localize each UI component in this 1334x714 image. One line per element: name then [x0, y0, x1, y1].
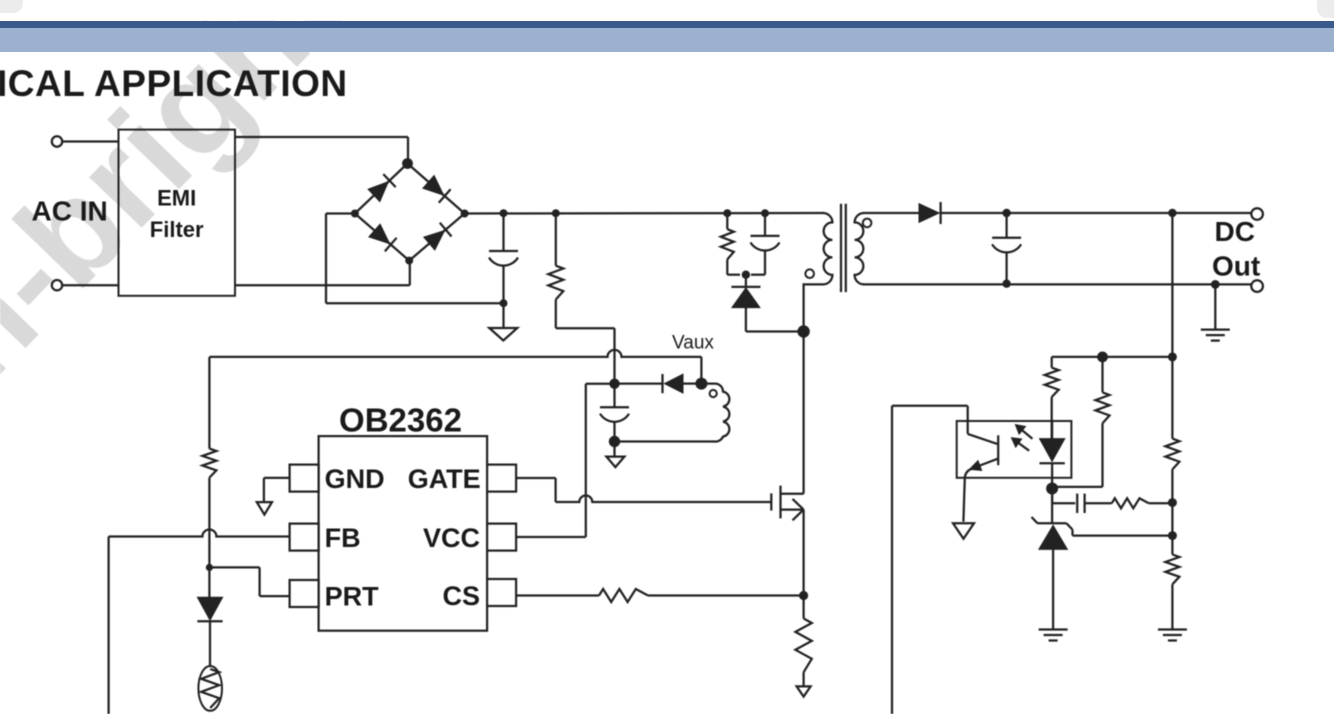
- optocoupler U2 phototransistor: [963, 406, 998, 522]
- node clamp: [742, 271, 750, 279]
- ground (output): [1201, 284, 1230, 340]
- transformer T1 core: [841, 204, 846, 292]
- wire: [326, 214, 504, 304]
- label DC: [1215, 216, 1255, 247]
- wire: [1171, 469, 1173, 554]
- pin label VCC: [423, 523, 480, 553]
- label AC IN: [32, 196, 108, 227]
- svg-text:CS: CS: [442, 581, 480, 611]
- wire GATE: [516, 478, 772, 502]
- pin label PRT: [325, 582, 380, 612]
- ground (zener): [1039, 630, 1068, 641]
- pin PRT: [290, 580, 319, 607]
- wire FB to opto: [892, 406, 968, 714]
- wire: [700, 357, 702, 378]
- ground (bulk): [489, 303, 517, 340]
- node: [723, 209, 731, 217]
- node bridge bottom: [405, 257, 413, 265]
- transformer T1 primary winding: [804, 213, 833, 332]
- svg-text:FB: FB: [325, 523, 361, 553]
- IC U1 OB2362 body: [319, 402, 488, 631]
- wire: [1171, 584, 1173, 629]
- wire CS: [516, 594, 599, 596]
- diode D1 (bridge): [368, 174, 396, 202]
- node bridge right: [461, 210, 469, 218]
- wire: [62, 140, 118, 142]
- node DC Out terminal +: [1251, 208, 1263, 220]
- svg-text:VCC: VCC: [423, 523, 480, 553]
- wire feedback rail: [1052, 356, 1173, 358]
- wire: [208, 357, 210, 449]
- header navy rule: [0, 21, 1334, 28]
- EMI filter block U3: [119, 130, 236, 296]
- label Out: [1212, 251, 1260, 282]
- node bridge top: [402, 158, 413, 169]
- wire FB (with hop): [109, 530, 290, 714]
- pin GND: [290, 465, 319, 492]
- node LED cathode: [1046, 483, 1058, 495]
- wire: [1171, 213, 1173, 439]
- svg-text:Filter: Filter: [150, 217, 204, 242]
- diode D5 (clamp): [731, 275, 800, 332]
- diode D8: [197, 567, 222, 666]
- ground (VCC cap): [606, 442, 624, 468]
- node source/CS: [799, 591, 808, 600]
- node: [552, 209, 560, 217]
- zener ZD1: [1032, 489, 1073, 630]
- node AC input terminal top: [52, 136, 62, 146]
- UI tab top-right: [1317, 0, 1334, 18]
- diode D3 (bridge): [369, 224, 397, 251]
- thermistor RT1: [198, 666, 222, 711]
- pin label GND: [325, 464, 385, 494]
- node: [1168, 209, 1176, 217]
- pin label FB: [325, 523, 361, 553]
- resistor R6 (divider lower): [1165, 555, 1179, 585]
- node: [500, 209, 508, 217]
- wire: [235, 261, 410, 286]
- node DC- ground tap: [1211, 280, 1220, 289]
- node: [1002, 209, 1010, 217]
- wire bridge edge: [408, 164, 465, 214]
- transistor Q1 (MOSFET): [771, 486, 803, 596]
- resistor R3 (opto series): [1045, 357, 1059, 439]
- node: [609, 436, 620, 447]
- header blue band: [0, 28, 1334, 52]
- capacitor C5 (comp): [1052, 494, 1112, 513]
- wire bridge edge: [409, 214, 464, 261]
- pin VCC: [487, 524, 516, 551]
- node: [1168, 531, 1177, 540]
- diode D6 (output rectifier): [919, 202, 1007, 224]
- diode D7 (Vaux): [619, 374, 696, 393]
- svg-text:GND: GND: [325, 464, 385, 494]
- wire: [648, 594, 804, 596]
- resistor R4 (bias): [1052, 357, 1109, 487]
- node PRT divider: [206, 564, 213, 571]
- resistor R2 (clamp): [721, 213, 740, 275]
- ground (opto emitter): [953, 523, 974, 539]
- resistor R5 (divider upper): [1165, 439, 1179, 470]
- node: [1002, 280, 1010, 288]
- label Vaux: [672, 333, 714, 354]
- wire: [1149, 502, 1173, 504]
- wire (FB/PRT top rail with hop): [209, 350, 701, 357]
- resistor R7 (comp): [1112, 498, 1149, 508]
- capacitor C1 (bulk): [489, 213, 518, 303]
- wire zener ref: [1073, 530, 1173, 536]
- transformer T1 aux winding: [615, 384, 730, 442]
- wire VCC: [516, 384, 610, 537]
- heading TYPICAL APPLICATION (cropped): [0, 63, 348, 105]
- resistor R9 (CS series): [599, 589, 648, 602]
- capacitor C2 (clamp): [751, 213, 780, 275]
- optocoupler light arrows: [1011, 425, 1032, 451]
- svg-text:OB2362: OB2362: [339, 402, 462, 439]
- pin label GATE: [408, 464, 481, 494]
- wire DC- rail: [863, 283, 1252, 285]
- resistor R10 (sense): [795, 596, 811, 687]
- svg-text:GATE: GATE: [408, 464, 481, 494]
- node: [1168, 498, 1177, 507]
- diode D2 (bridge): [423, 176, 451, 203]
- phase dot secondary: [863, 219, 872, 228]
- wire PRT: [209, 567, 289, 596]
- pin CS: [487, 579, 516, 606]
- phase dot primary: [805, 269, 814, 278]
- node DC Out terminal -: [1251, 280, 1263, 292]
- resistor R1 (startup): [548, 213, 614, 328]
- node aux top: [695, 378, 707, 390]
- ground (IC GND pin): [257, 478, 290, 515]
- svg-text:EMI: EMI: [157, 186, 196, 211]
- transformer T1 secondary winding: [855, 213, 919, 284]
- resistor R8 (line sense): [202, 449, 216, 478]
- capacitor C3 (output): [992, 213, 1021, 284]
- capacitor C4 (VCC): [600, 384, 629, 442]
- node bridge left: [351, 210, 359, 218]
- ground (sense): [797, 686, 811, 696]
- wire: [802, 332, 804, 494]
- wire: [613, 328, 615, 379]
- svg-text:PRT: PRT: [325, 582, 380, 612]
- svg-text:DC: DC: [1215, 216, 1255, 247]
- wire bridge edge: [355, 164, 408, 214]
- svg-text:Out: Out: [1212, 251, 1260, 282]
- pin FB: [290, 524, 319, 551]
- wire: [208, 478, 210, 568]
- wire DC+ rail: [1007, 212, 1252, 214]
- svg-text:Vaux: Vaux: [672, 333, 714, 354]
- wire: [235, 137, 408, 164]
- top white strip: [0, 0, 1334, 21]
- optocoupler U2 LED: [1040, 421, 1065, 489]
- node AC input terminal bottom: [52, 280, 62, 290]
- wire bridge edge: [355, 214, 409, 261]
- UI tab top-left: [0, 0, 23, 13]
- node: [761, 209, 769, 217]
- svg-text:AC IN: AC IN: [32, 196, 108, 227]
- wire: [62, 284, 118, 286]
- wire: [1051, 489, 1053, 504]
- optocoupler U2 body: [957, 421, 1072, 478]
- ground (divider): [1158, 630, 1187, 641]
- node: [1168, 352, 1177, 361]
- watermark: [0, 0, 370, 410]
- pin GATE: [487, 465, 516, 492]
- diode D4 (bridge): [424, 223, 452, 250]
- wire HV bus: [465, 212, 824, 215]
- phase dot aux: [710, 390, 717, 397]
- node VCC: [609, 379, 619, 389]
- node: [1097, 352, 1108, 363]
- node bulk cap negative: [500, 299, 508, 307]
- pin label CS: [442, 581, 480, 611]
- node primary bottom / drain: [797, 325, 809, 337]
